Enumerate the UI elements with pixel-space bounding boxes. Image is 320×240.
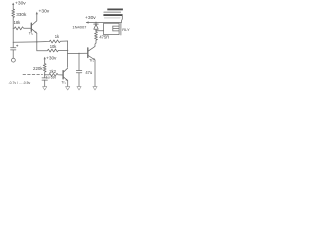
svg-text:Tr₁: Tr₁ [29,32,34,36]
relay contact (arm line) [104,11,121,13]
supply arrow +30v (relay) [86,21,122,23]
svg-text:18k: 18k [14,20,22,25]
wire (rail down from 330k to 18k node) [12,19,14,28]
svg-text:10k: 10k [50,44,58,49]
svg-text:+30v: +30v [85,15,96,21]
node (divider junction) [44,74,45,75]
svg-text:1N4007: 1N4007 [72,25,87,30]
svg-text:330k: 330k [16,12,27,17]
svg-text:+30v: +30v [39,9,50,15]
wire (node A to Q3 base) [68,52,88,54]
node (diode top) [95,22,96,23]
svg-text:475R: 475R [99,35,109,40]
wire (dashed measurement line) [23,74,43,76]
svg-text:2k2: 2k2 [49,69,56,74]
node (C2 tap) [78,53,79,54]
svg-text:1k: 1k [55,34,60,39]
ground (C3) [43,87,47,90]
svg-text:Tr₂: Tr₂ [61,80,66,84]
ground (Q2) [66,87,70,90]
node (emitter junction) [36,41,37,42]
supply arrow +30v (Q1 collector) [36,12,38,15]
node (diode bottom) [95,30,96,31]
resistor R2 18k [13,27,31,30]
diode D1 1N4007 [94,23,98,31]
wire (Q3 emitter down) [94,60,96,86]
capacitor C3 1u [42,75,47,87]
capacitor C1 (input coupling) [11,42,18,58]
svg-text:220k: 220k [33,66,43,71]
relay coil K1 [104,23,121,35]
resistor R1 330k [12,9,15,19]
input terminal [12,58,16,62]
resistor R3 1k [37,40,68,43]
ground (Q3) [93,87,97,90]
svg-text:-0.7v \ ... -0.5v: -0.7v \ ... -0.5v [9,81,31,85]
resistor R4 10k [37,49,68,52]
resistor R6 220k [43,64,46,75]
svg-text:Tr₃: Tr₃ [89,59,94,63]
svg-text:RLY: RLY [122,27,130,32]
resistor R5 2k2 [45,73,63,76]
relay contact (lower arm line) [104,17,120,19]
wire (input node to emitter node) [13,41,37,43]
wire (Q2 emitter down) [67,81,69,87]
wire (Q1 emitter down) [36,33,38,51]
wire (diode bottom to relay coil) [96,30,104,32]
wire (contact to supply wire) [121,16,124,22]
relay contact (bottom bar) [103,14,122,16]
wire (rail down to input node) [12,28,14,42]
svg-text:+30v: +30v [15,1,26,7]
node A [67,50,68,51]
transistor Q1 [31,14,37,34]
svg-text:1u 63v: 1u 63v [46,76,56,80]
capacitor C2 47u [76,53,82,86]
supply arrow +30v (left rail top) [12,3,14,9]
ground (C2) [77,87,81,90]
supply arrow +30v (220k top) [44,57,46,64]
relay contact (top bar) [107,8,123,10]
transistor Q3 [88,43,96,60]
transistor Q2 [63,68,68,81]
svg-text:47u: 47u [85,70,92,75]
resistor R7 475R [95,31,98,43]
svg-text:+30v: +30v [46,56,57,61]
wire (node A vertical) [67,41,69,67]
